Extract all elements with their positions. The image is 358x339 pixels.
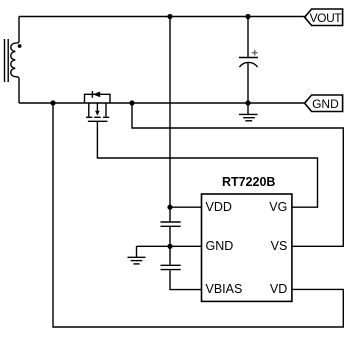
svg-text:GND: GND — [206, 239, 234, 253]
svg-text:VDD: VDD — [206, 200, 232, 214]
svg-text:VG: VG — [269, 200, 287, 214]
svg-text:VOUT: VOUT — [310, 11, 343, 25]
svg-text:VD: VD — [270, 282, 287, 296]
svg-text:RT7220B: RT7220B — [222, 175, 276, 189]
svg-text:VBIAS: VBIAS — [206, 282, 243, 296]
svg-text:VS: VS — [271, 239, 288, 253]
svg-text:GND: GND — [312, 97, 339, 111]
